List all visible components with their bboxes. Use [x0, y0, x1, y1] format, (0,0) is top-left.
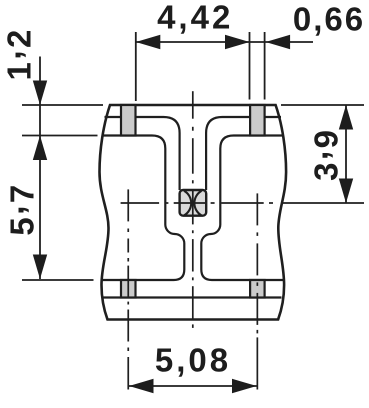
svg-text:0,66: 0,66	[293, 1, 365, 38]
svg-text:4,42: 4,42	[157, 0, 233, 36]
svg-text:5,08: 5,08	[155, 341, 231, 378]
